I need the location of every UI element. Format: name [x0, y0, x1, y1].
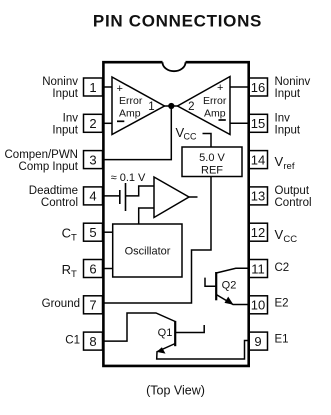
svg-text:REF: REF — [201, 164, 223, 176]
pin 13 box — [249, 187, 268, 205]
svg-text:Compen/PWN: Compen/PWN — [5, 149, 79, 161]
svg-text:Q1: Q1 — [158, 327, 173, 339]
wire pin1 to error amp 1 noninv input — [103, 86, 113, 88]
svg-text:PIN CONNECTIONS: PIN CONNECTIONS — [93, 11, 262, 30]
svg-text:Input: Input — [275, 124, 301, 136]
svg-text:5: 5 — [89, 225, 96, 240]
wire battery to comparator + input — [126, 186, 155, 196]
label pin10 E2 — [275, 298, 289, 310]
oscillator box — [113, 224, 182, 277]
svg-text:Input: Input — [52, 88, 78, 100]
label pin12 VCC — [275, 227, 298, 245]
net label VCC — [176, 125, 197, 142]
pin 10 box — [249, 296, 268, 314]
svg-text:Inv: Inv — [63, 112, 79, 124]
svg-text:T: T — [71, 233, 77, 244]
label pin5 CT — [62, 226, 77, 244]
transistor Q1 — [103, 313, 249, 359]
pin 12 box — [249, 223, 268, 241]
svg-text:Input: Input — [275, 88, 301, 100]
pin 3 box — [84, 151, 103, 169]
svg-text:15: 15 — [251, 116, 265, 131]
svg-text:10: 10 — [251, 298, 265, 313]
wire VCC to REF box — [203, 134, 212, 148]
pin 5 box — [84, 223, 103, 241]
pin 16 box — [249, 78, 268, 96]
svg-text:Q2: Q2 — [222, 280, 237, 292]
wire pin6 RT to oscillator — [103, 268, 113, 270]
svg-text:6: 6 — [89, 261, 96, 276]
wire REF box to ground pin7 — [103, 177, 212, 304]
svg-text:CC: CC — [283, 234, 297, 245]
label pin14 Vref — [275, 154, 295, 172]
svg-text:3: 3 — [89, 152, 96, 167]
regulator U2 5.0 V REF box — [182, 147, 242, 177]
svg-text:ref: ref — [283, 161, 294, 172]
svg-text:(Top View): (Top View) — [146, 383, 205, 397]
svg-text:8: 8 — [89, 334, 96, 349]
IC body U1 outline with index notch — [103, 62, 248, 366]
svg-text:Control: Control — [41, 197, 78, 209]
op-amp deadtime comparator — [154, 177, 189, 218]
svg-text:Deadtime: Deadtime — [29, 185, 78, 197]
svg-text:C1: C1 — [65, 334, 80, 346]
op-amp U1A error amp 1 — [112, 77, 165, 135]
svg-text:R: R — [62, 262, 71, 277]
pin 2 box — [84, 114, 103, 132]
pin 1 box — [84, 78, 103, 96]
label pin16 Noninv Input — [275, 76, 311, 100]
svg-text:Output: Output — [275, 185, 310, 197]
svg-text:≈ 0.1 V: ≈ 0.1 V — [111, 172, 146, 184]
svg-text:Error: Error — [119, 95, 143, 107]
label pin6 RT — [62, 262, 77, 280]
label pin1 Noninv Input — [42, 76, 79, 100]
svg-text:11: 11 — [251, 261, 265, 276]
svg-text:1: 1 — [89, 80, 96, 95]
wire pin2 to error amp 1 inv input — [103, 122, 113, 124]
transistor Q2 — [205, 268, 249, 305]
svg-text:2: 2 — [89, 116, 96, 131]
svg-text:Control: Control — [275, 197, 312, 209]
label pin11 C2 — [275, 262, 290, 274]
svg-text:14: 14 — [251, 152, 265, 167]
label pin4 Deadtime Control — [29, 185, 78, 209]
svg-text:V: V — [275, 227, 284, 242]
svg-text:2: 2 — [188, 101, 194, 113]
svg-text:+: + — [117, 83, 123, 95]
pin 11 box — [249, 260, 268, 278]
pin 8 box — [84, 332, 103, 350]
battery B1 deadtime offset 0.1 V — [120, 183, 126, 211]
svg-text:Noninv: Noninv — [42, 76, 78, 88]
op-amp U1B error amp 2 — [178, 77, 231, 135]
svg-text:Inv: Inv — [275, 112, 291, 124]
wire pin16 to error amp 2 noninv input — [230, 86, 249, 88]
svg-text:+: + — [217, 82, 223, 94]
svg-text:C2: C2 — [275, 262, 290, 274]
label pin2 Inv Input — [52, 112, 78, 136]
svg-text:E2: E2 — [275, 298, 289, 310]
label pin15 Inv Input — [275, 112, 301, 136]
svg-text:Amp: Amp — [204, 108, 226, 120]
svg-text:E1: E1 — [275, 334, 289, 346]
svg-text:Ground: Ground — [42, 298, 80, 310]
svg-text:Oscillator: Oscillator — [125, 246, 171, 258]
svg-text:V: V — [275, 154, 284, 169]
wire feedback node to pin3 — [103, 106, 172, 160]
pin 15 box — [249, 114, 268, 132]
svg-text:Input: Input — [52, 124, 78, 136]
label pin7 Ground — [42, 298, 80, 310]
pin 9 box — [249, 332, 268, 350]
svg-text:4: 4 — [89, 189, 96, 204]
pin 6 box — [84, 260, 103, 278]
svg-text:C: C — [62, 226, 71, 241]
svg-text:T: T — [71, 269, 77, 280]
pin 4 box — [84, 187, 103, 205]
pin 7 box — [84, 296, 103, 314]
label pin3 Compen/PWN Comp Input — [5, 149, 79, 173]
label pin8 C1 — [65, 334, 80, 346]
svg-text:1: 1 — [148, 101, 154, 113]
wire comparator output stub — [189, 196, 198, 198]
svg-text:Comp Input: Comp Input — [19, 161, 79, 173]
svg-text:16: 16 — [251, 80, 265, 95]
pin 14 box — [249, 151, 268, 169]
wire pin15 to error amp 2 inv input — [230, 122, 249, 124]
svg-text:Amp: Amp — [119, 108, 141, 120]
svg-text:12: 12 — [251, 225, 265, 240]
label pin9 E1 — [275, 334, 289, 346]
wire oscillator to comparator - input — [139, 208, 154, 224]
svg-text:Error: Error — [203, 95, 227, 107]
svg-text:9: 9 — [254, 334, 261, 349]
node junction dot — [168, 103, 174, 109]
wire pin5 CT to oscillator — [103, 231, 113, 233]
svg-text:7: 7 — [89, 298, 96, 313]
wire pin4 to battery — [103, 195, 120, 197]
wire error amp outputs joined — [165, 105, 178, 107]
svg-text:5.0 V: 5.0 V — [199, 152, 225, 164]
label pin13 Output Control — [275, 185, 312, 209]
svg-text:13: 13 — [251, 189, 265, 204]
svg-text:Noninv: Noninv — [275, 76, 311, 88]
svg-text:CC: CC — [184, 132, 197, 142]
